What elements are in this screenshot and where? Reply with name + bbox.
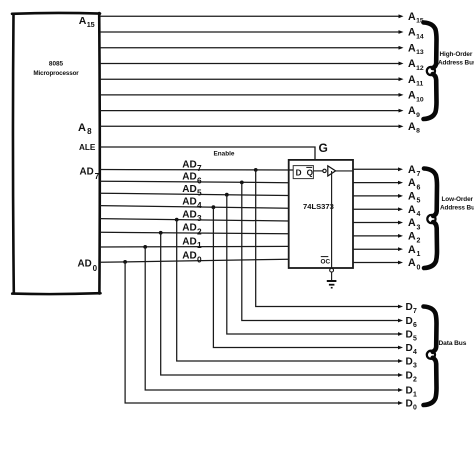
wire A7 out <box>353 168 399 170</box>
arrow A7 <box>398 167 403 171</box>
wire AD6 <box>100 181 289 183</box>
arrow A11 <box>399 77 404 81</box>
svg-text:74LS373: 74LS373 <box>303 202 334 211</box>
arrow D4 <box>398 346 403 350</box>
arrow A2 <box>398 234 403 238</box>
inverter bubble <box>323 169 326 172</box>
wire A2 out <box>353 235 399 237</box>
arrow D7 <box>398 305 403 309</box>
node AD5 junction <box>225 193 229 197</box>
wire AD7 to D7 <box>256 170 399 307</box>
wire AD3 to D3 <box>177 220 399 361</box>
wire A10 <box>100 94 399 96</box>
wire A3 out <box>353 222 399 224</box>
wire A6 out <box>353 182 399 184</box>
buffer triangle <box>328 166 336 176</box>
arrow A0 <box>398 261 403 265</box>
node AD4 junction <box>212 205 216 209</box>
wire OC control line <box>331 171 333 268</box>
wire A1 out <box>353 248 399 250</box>
arrow D1 <box>398 388 403 392</box>
wire A8 <box>100 125 399 127</box>
svg-text:ALE: ALE <box>79 143 96 152</box>
wire Q to inverter bubble <box>313 170 322 172</box>
brace high-order address bus <box>424 23 437 69</box>
svg-text:Low-Order: Low-Order <box>442 196 474 203</box>
pin label OC <box>321 257 331 266</box>
wire AD7 <box>100 169 293 172</box>
wire A12 <box>100 63 399 65</box>
8085 microprocessor U1 <box>12 13 101 294</box>
arrow A5 <box>398 194 403 198</box>
brace low-order address bus <box>424 169 437 217</box>
arrow D2 <box>398 373 403 377</box>
wire ALE Enable <box>100 147 315 160</box>
wire A0 out <box>353 262 399 264</box>
svg-text:G: G <box>319 141 328 155</box>
svg-text:D: D <box>296 169 302 178</box>
D flip-flop symbol inside U2 <box>293 166 313 179</box>
arrow A12 <box>399 62 404 66</box>
arrow D5 <box>398 332 403 336</box>
arrow A4 <box>398 207 403 211</box>
ground <box>327 281 337 288</box>
svg-text:Address Bus: Address Bus <box>438 60 474 67</box>
wire A13 <box>100 47 399 49</box>
wire AD0 <box>100 259 289 262</box>
wire AD4 to D4 <box>213 207 399 347</box>
wire AD1 to D1 <box>145 247 399 390</box>
arrow A10 <box>399 93 404 97</box>
wire A14 <box>100 31 399 33</box>
wire A5 out <box>353 195 399 197</box>
bubble OC pin <box>330 268 334 272</box>
svg-text:Q: Q <box>307 169 314 178</box>
svg-text:High-Order: High-Order <box>440 51 473 58</box>
node AD0 junction <box>123 260 127 264</box>
wire A9 <box>100 110 399 112</box>
arrow A13 <box>399 46 404 50</box>
wire A15 <box>100 15 399 17</box>
svg-text:Microprocessor: Microprocessor <box>33 70 79 77</box>
wire AD0 to D0 <box>125 262 399 403</box>
wire AD1 <box>100 245 289 248</box>
arrow D0 <box>398 401 403 405</box>
wire AD2 to D2 <box>161 233 399 375</box>
wire AD6 to D6 <box>242 182 399 320</box>
wire AD5 <box>100 193 289 195</box>
node AD6 junction <box>240 181 244 185</box>
wire OC to ground <box>331 272 333 281</box>
arrow A1 <box>398 247 403 251</box>
svg-text:Enable: Enable <box>214 150 235 157</box>
svg-text:8085: 8085 <box>49 61 64 68</box>
node AD7 junction <box>254 168 258 172</box>
arrow A8 <box>399 124 404 128</box>
label High-Order Address Bus <box>438 51 474 67</box>
svg-text:OC: OC <box>321 259 331 266</box>
node AD1 junction <box>143 245 147 249</box>
svg-text:Address Bus: Address Bus <box>440 205 474 212</box>
arrow D6 <box>398 319 403 323</box>
brace data bus <box>424 307 437 352</box>
node AD2 junction <box>159 231 163 235</box>
wire A4 out <box>353 208 399 210</box>
arrow A14 <box>399 30 404 34</box>
arrow A6 <box>398 181 403 185</box>
wire buffer output <box>336 170 353 172</box>
arrow A15 <box>399 14 404 18</box>
wire A11 <box>100 78 399 80</box>
svg-text:Data Bus: Data Bus <box>439 340 467 347</box>
latch 74LS373 U2 <box>289 160 353 268</box>
wire AD3 <box>100 219 289 221</box>
wire AD5 to D5 <box>227 195 399 334</box>
arrow A9 <box>399 109 404 113</box>
label 8085 Microprocessor <box>33 61 79 78</box>
arrow D3 <box>398 359 403 363</box>
wire AD2 <box>100 232 289 233</box>
node AD3 junction <box>175 218 179 222</box>
label Low-Order Address Bus <box>440 196 474 212</box>
wire AD4 <box>100 206 289 209</box>
arrow A3 <box>398 221 403 225</box>
